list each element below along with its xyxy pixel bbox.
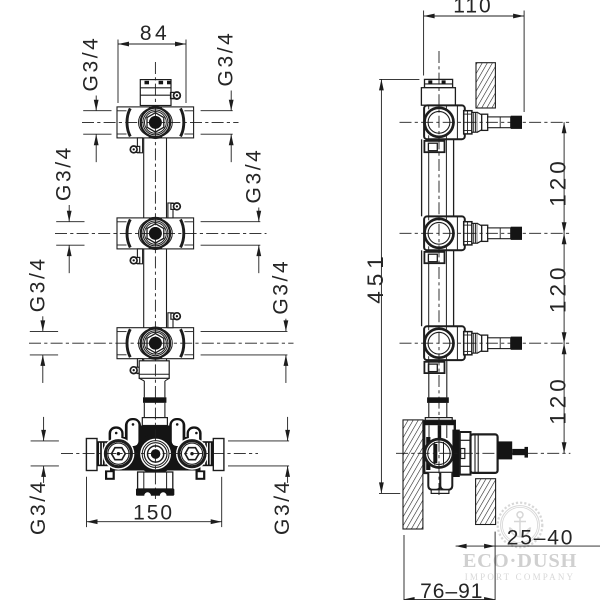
valve concentric rings — [139, 328, 173, 358]
front view: riser pipe segments — [143, 138, 145, 218]
G3/4 thread label: front valve 3 right — [201, 330, 288, 332]
valve housing barrel arcs — [127, 329, 130, 357]
valve stem shaft — [488, 117, 511, 128]
hatched wall section top right — [476, 63, 495, 108]
svg-text:ECO·DUSH: ECO·DUSH — [463, 550, 578, 572]
G3/4 thread label: front valve 2 left — [56, 221, 84, 223]
dimension 76-91 (bottom) — [403, 535, 405, 600]
svg-text:120: 120 — [546, 157, 571, 207]
bottom-left retaining clip — [137, 249, 142, 264]
valve concentric rings — [139, 108, 173, 138]
side view: coupling ring (black) — [427, 397, 449, 402]
hatched wall section behind mixer (side view) — [403, 420, 423, 529]
svg-text:G3/4: G3/4 — [269, 259, 292, 315]
valve black center port — [149, 227, 162, 240]
bottom-left retaining clip — [137, 138, 142, 153]
centerline: front valve 3 horizontal — [29, 342, 294, 344]
centerline: side mixer horizontal — [396, 452, 570, 454]
front view: pipe coupling ring (black) — [143, 397, 166, 402]
top-right retaining clip — [171, 92, 177, 98]
front view: lower pipe to mixer — [143, 381, 145, 397]
svg-text:451: 451 — [363, 251, 388, 304]
mixer front: black body silhouette — [110, 437, 201, 471]
valve stem shaft — [488, 338, 511, 349]
mixer front: left threaded pipe (black with ribs) — [97, 441, 114, 466]
clip bracket below valve — [424, 362, 444, 373]
front view: cap clip top right — [171, 93, 177, 99]
side valve face circles — [425, 108, 454, 137]
centerline: front valve 2 horizontal — [55, 232, 267, 234]
dimension 150 (bottom of front view) — [86, 477, 88, 527]
valve housing barrel arcs — [127, 219, 130, 247]
centerline: side vertical axis — [438, 51, 440, 498]
mixer front: right threaded pipe — [196, 441, 213, 466]
svg-text:G3/4: G3/4 — [53, 145, 76, 201]
valve stem ribs — [472, 333, 477, 353]
front valve body housing at y=233.4 — [117, 218, 194, 249]
mixer front: right supply flange — [213, 439, 224, 471]
watermark logo: rope ring with anchor — [498, 503, 543, 548]
side mixer: body block — [424, 421, 455, 473]
front view: top cap — [140, 80, 171, 106]
dimension 84 (top of front view) — [117, 40, 119, 104]
centerline: front valve 1 horizontal — [82, 121, 239, 123]
valve stem cone — [477, 112, 481, 132]
mixer front: side feet — [105, 470, 115, 479]
redraw black ports over centerlines — [149, 116, 162, 129]
side valve body at y=233.3 — [424, 216, 465, 250]
svg-text:110: 110 — [453, 0, 492, 18]
svg-text:84: 84 — [140, 22, 170, 45]
dimension 25-40 (wall depth range) — [494, 532, 496, 600]
front valve body housing at y=122.4 — [117, 107, 194, 138]
mixer front: mounting posts — [109, 426, 124, 446]
valve stem collar — [464, 111, 472, 134]
svg-text:25–40: 25–40 — [507, 526, 574, 549]
svg-text:76–91: 76–91 — [420, 580, 483, 600]
valve stem collar — [464, 222, 472, 245]
valve stem ribs — [472, 223, 477, 243]
front view: block below valve 3 — [139, 361, 169, 379]
dimension 451 (left of side view) — [379, 78, 419, 80]
front valve body housing at y=343.2 — [117, 328, 194, 359]
side valve body at y=122.3 — [424, 105, 465, 139]
svg-text:G3/4: G3/4 — [26, 256, 49, 312]
side view: body rail segments — [421, 139, 423, 216]
valve stem black tips (side view) — [511, 116, 522, 129]
centerline: side valve 2 horizontal — [400, 232, 571, 234]
G3/4 thread label: front valve 3 left — [30, 330, 58, 332]
svg-text:120: 120 — [546, 264, 571, 314]
top-right retaining clip — [168, 203, 173, 218]
dimension 110 (top of side view) — [423, 11, 425, 76]
centerline: front mixer horizontal — [61, 453, 258, 455]
G3/4 thread label: front mixer right — [228, 440, 289, 442]
clip bracket below valve — [424, 141, 444, 152]
svg-text:G3/4: G3/4 — [242, 148, 265, 204]
valve black center port — [149, 116, 162, 129]
mixer front: left supply flange — [86, 439, 97, 471]
G3/4 thread label: front valve 2 right — [201, 221, 261, 223]
centerline: side valve 3 horizontal — [400, 342, 571, 344]
svg-text:150: 150 — [133, 502, 174, 525]
valve stem cone — [477, 333, 481, 353]
valve concentric rings — [139, 219, 173, 249]
mixer front: bottom outlet — [138, 472, 173, 489]
side view: upper body — [421, 88, 455, 106]
svg-text:G3/4: G3/4 — [215, 31, 238, 87]
side valve body at y=343.2 — [424, 326, 465, 360]
bottom-left retaining clip — [137, 359, 142, 374]
mixer cartridge black stem — [498, 441, 513, 459]
side valve face circles — [425, 219, 454, 248]
side mixer: cartridge housing — [471, 434, 498, 473]
side mixer: top shoulder — [425, 418, 452, 421]
side mixer: mounting frame — [452, 430, 459, 477]
side view: down pipe below valve 3 — [428, 360, 430, 397]
valve black center port — [149, 337, 162, 350]
G3/4 thread label: front mixer left — [31, 440, 59, 442]
valve stem shaft — [488, 228, 511, 239]
svg-text:G3/4: G3/4 — [80, 36, 103, 92]
G3/4 thread label: front valve 1 right — [201, 110, 233, 112]
side mixer: bottom feet — [428, 473, 440, 490]
outlet feet white half-circles — [144, 492, 151, 499]
side mixer: face circle — [425, 439, 453, 467]
centerline: side valve 1 horizontal — [400, 121, 571, 123]
clip bracket below valve — [424, 252, 444, 263]
valve housing barrel arcs — [127, 108, 130, 136]
hatched finished-wall section bottom right — [476, 479, 496, 525]
mixer front: right hex union — [176, 438, 208, 470]
svg-text:G3/4: G3/4 — [27, 479, 50, 535]
svg-text:120: 120 — [546, 375, 571, 425]
svg-text:G3/4: G3/4 — [271, 479, 294, 535]
mixer front: left hex union — [102, 438, 134, 470]
dimension chain 120/120/120 (right of side view) — [563, 122, 565, 453]
side valve face circles — [425, 329, 454, 358]
front view: mixer neck collar — [142, 418, 167, 426]
valve stem ribs — [472, 112, 477, 132]
centerline: front vertical axis — [154, 62, 156, 499]
G3/4 thread label: front valve 1 left — [83, 110, 111, 112]
valve stem cone — [477, 223, 481, 243]
side view: top cap — [425, 79, 453, 87]
mixer front: center cartridge rings — [140, 439, 171, 470]
top-right retaining clip — [168, 313, 173, 328]
valve stem collar — [464, 332, 472, 355]
